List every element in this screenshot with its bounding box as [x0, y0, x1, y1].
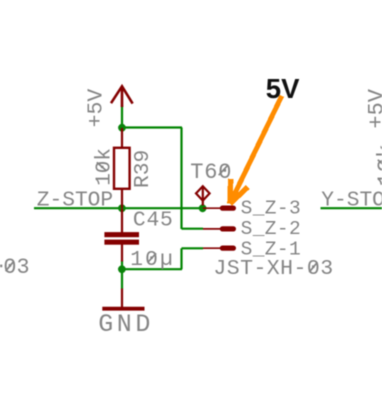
capacitor C45 pin bottom [121, 244, 123, 261]
junction dot below +5V [118, 124, 126, 132]
dash sliver of left JST-XH-03 at page edge [0, 265, 2, 268]
svg-text:GND: GND [98, 310, 154, 339]
wire vertical bus to pin S_Z-2 [180, 128, 182, 230]
slashed zero of T60 [219, 165, 228, 175]
wire Z-STOP net [34, 207, 203, 209]
svg-text:+5V: +5V [364, 88, 382, 128]
capacitor C45 top plate [104, 232, 139, 237]
annotation arrow 5V pointing to pin S_Z-3 [230, 96, 282, 204]
slashed zero of left JST-XH-03 [6, 261, 14, 271]
wire junction A to right [121, 126, 182, 128]
slashed zero of 10u value [148, 253, 157, 262]
svg-text:T60: T60 [190, 160, 232, 185]
svg-text:5V: 5V [266, 73, 300, 104]
junction dot Z-STOP resistor [118, 204, 126, 212]
resistor R39 body [114, 148, 130, 189]
resistor R39 pin bottom [121, 189, 123, 209]
capacitor C45 pin top [121, 209, 123, 233]
svg-text:10k: 10k [93, 148, 116, 186]
slashed zero of 10k R39 (rotated) [97, 162, 107, 171]
wire vertical up to pin S_Z-1 [180, 248, 182, 269]
slashed zero of JST-XH-03 [309, 262, 317, 272]
connector pin S_Z-3 [203, 207, 233, 209]
wire ground junction to right [121, 268, 182, 270]
svg-text:S_Z-3: S_Z-3 [241, 198, 302, 220]
svg-text:JST-XH-03: JST-XH-03 [0, 255, 30, 280]
svg-text:10k: 10k [374, 144, 382, 186]
junction dot testpoint pin S_Z-3 [199, 204, 207, 212]
wire Y-STOP net [321, 207, 382, 209]
testpoint T60 diamond [196, 186, 210, 205]
power symbol +5V arrow [111, 86, 133, 107]
wire into pin S_Z-1 [182, 247, 204, 249]
wire capacitor to ground junction [121, 261, 123, 290]
connector pin S_Z-1 [203, 247, 233, 249]
ground lead [121, 289, 123, 308]
ground bar [102, 307, 144, 311]
svg-text:+5V: +5V [84, 89, 108, 128]
junction dot ground net [118, 265, 126, 273]
svg-text:S_Z-2: S_Z-2 [241, 218, 302, 240]
wire into pin S_Z-2 [182, 228, 204, 230]
connector pin S_Z-2 [203, 228, 233, 230]
wire +5V drop to junction [121, 106, 123, 129]
slashed zero of right 10k (rotated) [378, 160, 382, 169]
svg-text:Z-STOP: Z-STOP [37, 189, 113, 213]
svg-text:C45: C45 [133, 209, 174, 233]
svg-text:JST-XH-03: JST-XH-03 [213, 257, 333, 281]
svg-text:10µ: 10µ [130, 248, 175, 272]
svg-text:R39: R39 [131, 150, 155, 188]
resistor R39 pin top [121, 128, 123, 148]
svg-text:Y-STOP: Y-STOP [321, 188, 382, 212]
capacitor C45 bottom plate [104, 240, 139, 245]
